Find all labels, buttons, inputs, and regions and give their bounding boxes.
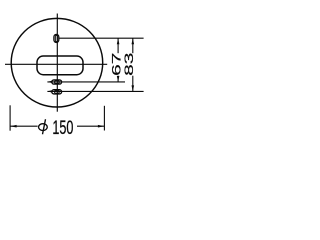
screw hole B stadium [52, 90, 62, 94]
top mounting slot outer [54, 34, 59, 42]
white mask behind text 83 [123, 53, 134, 75]
leader line from screw hole B [47, 90, 143, 92]
extension line right for φ150 [103, 106, 105, 131]
φ150 arrow left [10, 125, 17, 128]
screw hole A inner slot [55, 81, 60, 84]
leader B left arrowhead [47, 90, 52, 92]
svg-text:67: 67 [110, 53, 123, 76]
leader A left arrowhead [47, 81, 52, 83]
svg-text:83: 83 [123, 53, 136, 76]
dimension line 83 [132, 38, 134, 91]
svg-text:150: 150 [52, 117, 73, 138]
φ150 dimension line right segment [77, 125, 104, 127]
extension line left for φ150 [9, 105, 11, 130]
dimension 83 arrow down [132, 85, 135, 91]
leader line from screw hole A [47, 81, 125, 83]
φ150 arrow right [98, 125, 105, 128]
white mask behind text 67 [111, 53, 122, 75]
dimension 67 arrow down [117, 76, 120, 82]
vertical centerline [56, 14, 58, 112]
center wiring hole rounded rectangle [37, 56, 83, 75]
mounting plate outline circle (φ150) [11, 18, 103, 107]
screw hole B inner slot [55, 91, 60, 94]
dimension 67 arrow up [117, 38, 120, 44]
horizontal centerline [5, 63, 107, 65]
leader line from top slot to dimension lines [59, 37, 144, 39]
screw hole A stadium [52, 80, 62, 84]
dimension text φ (phi symbol drawn as loop + slanted stem) [39, 124, 48, 131]
top mounting slot inner [55, 35, 57, 41]
dimension line 67 [117, 38, 119, 82]
φ150 dimension line left segment [10, 125, 37, 127]
dimension 83 arrow up [132, 38, 135, 44]
